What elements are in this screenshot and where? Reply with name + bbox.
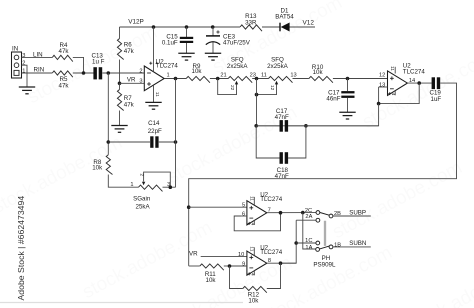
junction <box>152 25 156 29</box>
svg-text:1: 1 <box>167 72 170 78</box>
capacitor C18 47nF <box>280 152 283 164</box>
wire <box>296 242 316 244</box>
wire <box>253 247 255 255</box>
ground <box>111 126 127 133</box>
op-amp U2 (A) <box>144 66 164 91</box>
wire <box>234 213 280 231</box>
wire <box>120 82 145 84</box>
svg-text:V12P: V12P <box>128 19 144 26</box>
svg-text:4: 4 <box>390 93 396 96</box>
svg-text:13: 13 <box>290 73 296 79</box>
op-amp U2 (C) <box>247 201 267 225</box>
wire <box>186 43 188 53</box>
junction <box>417 81 421 85</box>
wire <box>256 126 279 158</box>
svg-text:stock.adobe.com: stock.adobe.com <box>159 252 296 308</box>
capacitor C13 <box>93 67 97 79</box>
junction <box>216 77 220 81</box>
svg-text:4: 4 <box>250 273 256 276</box>
wire <box>246 215 248 217</box>
ground <box>178 53 194 60</box>
junction <box>107 140 111 144</box>
svg-text:1B: 1B <box>334 243 341 249</box>
svg-text:4: 4 <box>250 223 256 226</box>
wire <box>212 42 214 53</box>
wire <box>333 246 371 248</box>
svg-text:1: 1 <box>22 69 25 75</box>
capacitor C17 47nF <box>280 120 283 132</box>
svg-text:1A: 1A <box>305 245 312 251</box>
wire <box>119 83 121 89</box>
svg-text:Adobe Stock | #662473494: Adobe Stock | #662473494 <box>16 196 26 301</box>
wire <box>347 79 349 92</box>
svg-text:22: 22 <box>229 85 235 91</box>
wire <box>153 85 155 102</box>
wire <box>379 83 420 104</box>
svg-text:stock.adobe.com: stock.adobe.com <box>79 217 216 303</box>
svg-text:SUBN: SUBN <box>349 240 366 247</box>
svg-text:RIN: RIN <box>34 67 45 74</box>
wire <box>210 78 228 80</box>
svg-text:4: 4 <box>153 62 159 65</box>
junction <box>228 264 232 268</box>
wire <box>296 219 316 221</box>
potentiometer SFQ 2x25kA (2) <box>269 76 293 82</box>
ground <box>145 102 161 109</box>
svg-text:33R: 33R <box>245 19 257 26</box>
svg-text:2: 2 <box>139 174 145 177</box>
wire <box>394 91 396 96</box>
svg-text:10: 10 <box>238 252 244 258</box>
wire <box>333 78 388 80</box>
resistor R5 <box>52 71 73 77</box>
svg-text:12: 12 <box>379 72 385 78</box>
relay PH PS909L <box>316 211 320 215</box>
junction <box>294 241 298 245</box>
svg-text:47k: 47k <box>124 102 135 109</box>
svg-text:25kA: 25kA <box>136 204 151 211</box>
wire <box>256 125 279 127</box>
wire <box>175 79 177 188</box>
junction <box>187 205 191 209</box>
svg-text:2x25kA: 2x25kA <box>267 63 289 70</box>
svg-text:12: 12 <box>269 85 275 91</box>
wire <box>230 265 247 267</box>
svg-text:TLC274: TLC274 <box>260 196 283 203</box>
svg-text:2x25kA: 2x25kA <box>227 63 249 70</box>
wire <box>218 79 237 95</box>
svg-text:VR: VR <box>127 76 136 83</box>
wire <box>224 265 230 267</box>
svg-text:stock.adobe.com: stock.adobe.com <box>329 157 466 243</box>
svg-text:VR: VR <box>189 251 198 258</box>
junction <box>254 124 258 128</box>
svg-text:11: 11 <box>248 196 254 201</box>
svg-text:47k: 47k <box>59 83 70 90</box>
svg-text:C14: C14 <box>148 120 160 127</box>
wire <box>253 271 255 276</box>
wire <box>108 175 138 188</box>
svg-text:3: 3 <box>139 79 142 85</box>
wire <box>252 78 268 80</box>
wire <box>257 82 277 94</box>
resistor R9 <box>186 76 210 82</box>
junction <box>211 25 215 29</box>
junction <box>118 82 122 86</box>
svg-text:1u F: 1u F <box>92 59 105 66</box>
svg-text:47uF/25V: 47uF/25V <box>223 40 251 47</box>
svg-text:47k: 47k <box>59 48 70 55</box>
svg-text:21: 21 <box>220 73 226 79</box>
wire <box>22 56 53 58</box>
op-amp U2 (B) <box>388 71 408 96</box>
resistor R4 <box>52 55 73 61</box>
svg-text:47nF: 47nF <box>275 173 289 180</box>
wire <box>212 27 214 36</box>
svg-text:10k: 10k <box>313 69 324 76</box>
junction <box>377 102 381 106</box>
resistor R10 <box>309 76 333 82</box>
wire <box>267 263 281 288</box>
op-amp U2 (D) <box>247 251 267 275</box>
svg-text:10k: 10k <box>248 297 259 304</box>
junction <box>169 185 173 189</box>
wire <box>379 86 388 88</box>
wire <box>120 26 241 28</box>
wire <box>102 72 144 74</box>
svg-text:47k: 47k <box>124 48 135 55</box>
wire <box>189 265 200 267</box>
capacitor C19 <box>432 77 435 89</box>
wire <box>256 104 378 126</box>
wire <box>241 215 247 217</box>
junction <box>346 77 350 81</box>
svg-text:6: 6 <box>242 212 245 218</box>
svg-text:5: 5 <box>242 202 245 208</box>
wire <box>288 125 306 127</box>
junction <box>301 211 305 215</box>
wire <box>163 186 176 188</box>
svg-text:11: 11 <box>261 73 267 79</box>
svg-text:10k: 10k <box>192 68 203 75</box>
ground <box>19 87 35 94</box>
junction <box>82 71 86 75</box>
wire <box>333 215 371 217</box>
junction <box>279 211 283 215</box>
wire <box>108 141 150 143</box>
wire <box>293 78 309 80</box>
svg-text:1uF: 1uF <box>431 96 442 103</box>
wire <box>119 60 121 84</box>
wire <box>22 65 28 87</box>
svg-text:22pF: 22pF <box>148 128 162 135</box>
svg-text:10k: 10k <box>206 277 217 284</box>
wire <box>73 57 84 73</box>
junction <box>174 140 178 144</box>
wire <box>107 73 109 155</box>
resistor R8 <box>106 155 112 175</box>
wire <box>290 26 316 28</box>
svg-text:46nF: 46nF <box>326 96 340 103</box>
wire <box>119 27 121 39</box>
ground <box>339 112 355 119</box>
svg-text:11: 11 <box>248 246 254 251</box>
junction <box>255 77 259 81</box>
junction <box>174 77 178 81</box>
svg-text:10k: 10k <box>92 165 103 172</box>
wire <box>267 212 316 214</box>
junction <box>304 124 308 128</box>
potentiometer SGain 25kA <box>139 185 163 191</box>
wire <box>144 172 171 187</box>
wire <box>201 256 247 258</box>
svg-text:0.1uF: 0.1uF <box>162 40 178 47</box>
svg-text:TLC274: TLC274 <box>260 249 283 256</box>
wire <box>253 197 255 205</box>
svg-text:SUBP: SUBP <box>349 209 366 216</box>
svg-text:11: 11 <box>154 92 160 97</box>
wire <box>164 78 186 80</box>
svg-text:3: 3 <box>22 53 25 59</box>
svg-text:13: 13 <box>379 83 385 89</box>
wire <box>230 266 243 289</box>
wire <box>303 213 316 249</box>
svg-text:2A: 2A <box>305 214 312 220</box>
svg-text:11: 11 <box>389 66 395 71</box>
wire <box>407 82 431 84</box>
svg-text:1: 1 <box>130 182 133 188</box>
wire <box>186 27 188 37</box>
svg-text:2: 2 <box>22 61 25 67</box>
svg-text:SGain: SGain <box>133 196 151 203</box>
wire <box>22 72 53 74</box>
junction <box>279 261 283 265</box>
svg-text:2: 2 <box>139 68 142 74</box>
junction <box>185 25 189 29</box>
diode D1 BAT54 <box>279 23 281 32</box>
junction <box>255 93 259 97</box>
wire <box>306 125 379 127</box>
wire <box>253 220 255 225</box>
wire <box>267 262 296 264</box>
resistor R13 <box>240 25 262 31</box>
wire <box>73 72 94 74</box>
junction <box>107 71 111 75</box>
wire <box>347 98 349 112</box>
wire <box>256 79 258 126</box>
wire <box>394 67 396 74</box>
wire <box>189 83 457 266</box>
ground <box>205 53 221 60</box>
svg-text:47nF: 47nF <box>275 114 289 121</box>
svg-text:TLC274: TLC274 <box>403 68 426 75</box>
wire <box>288 126 306 158</box>
svg-text:BAT54: BAT54 <box>275 14 294 21</box>
svg-text:V12: V12 <box>303 19 315 26</box>
wire <box>159 141 176 143</box>
svg-text:PS909L: PS909L <box>313 261 336 268</box>
wire <box>281 220 297 263</box>
svg-text:stock.adobe.com: stock.adobe.com <box>403 252 474 308</box>
wire <box>153 27 155 72</box>
wire <box>262 26 280 28</box>
svg-text:2C: 2C <box>305 208 312 214</box>
wire <box>189 206 247 208</box>
potentiometer SFQ 2x25kA (1) <box>228 76 252 82</box>
wire <box>119 111 121 126</box>
svg-text:1C: 1C <box>305 238 312 244</box>
resistor R7 <box>117 90 123 111</box>
